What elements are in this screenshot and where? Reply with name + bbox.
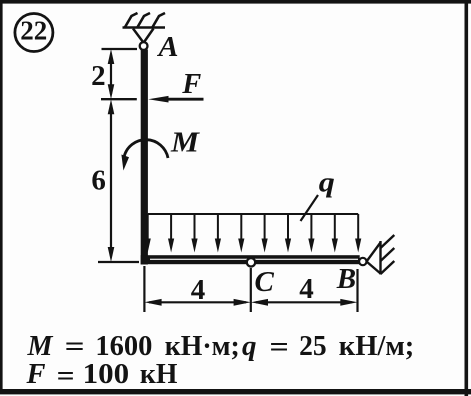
svg-text:C: C [255,266,275,298]
svg-text:M: M [26,331,53,362]
svg-text:=: = [65,332,85,363]
svg-text:=: = [57,361,75,392]
svg-text:6: 6 [91,165,106,197]
svg-text:q: q [319,166,335,198]
svg-text:4: 4 [299,273,314,305]
svg-text:100: 100 [83,359,129,390]
svg-text:B: B [336,263,356,295]
svg-text:25: 25 [299,331,327,362]
svg-text:кН·м;: кН·м; [165,331,240,362]
svg-text:M: M [170,127,200,159]
svg-text:2: 2 [91,60,106,92]
svg-text:4: 4 [191,274,206,306]
svg-text:кН: кН [140,359,178,390]
svg-text:q: q [242,331,257,362]
svg-text:22: 22 [20,16,47,46]
svg-text:F: F [181,68,201,100]
svg-text:F: F [25,359,45,390]
svg-text:A: A [156,31,178,63]
svg-text:=: = [269,332,289,363]
svg-text:1600: 1600 [95,331,152,362]
svg-text:кН/м;: кН/м; [339,331,415,362]
